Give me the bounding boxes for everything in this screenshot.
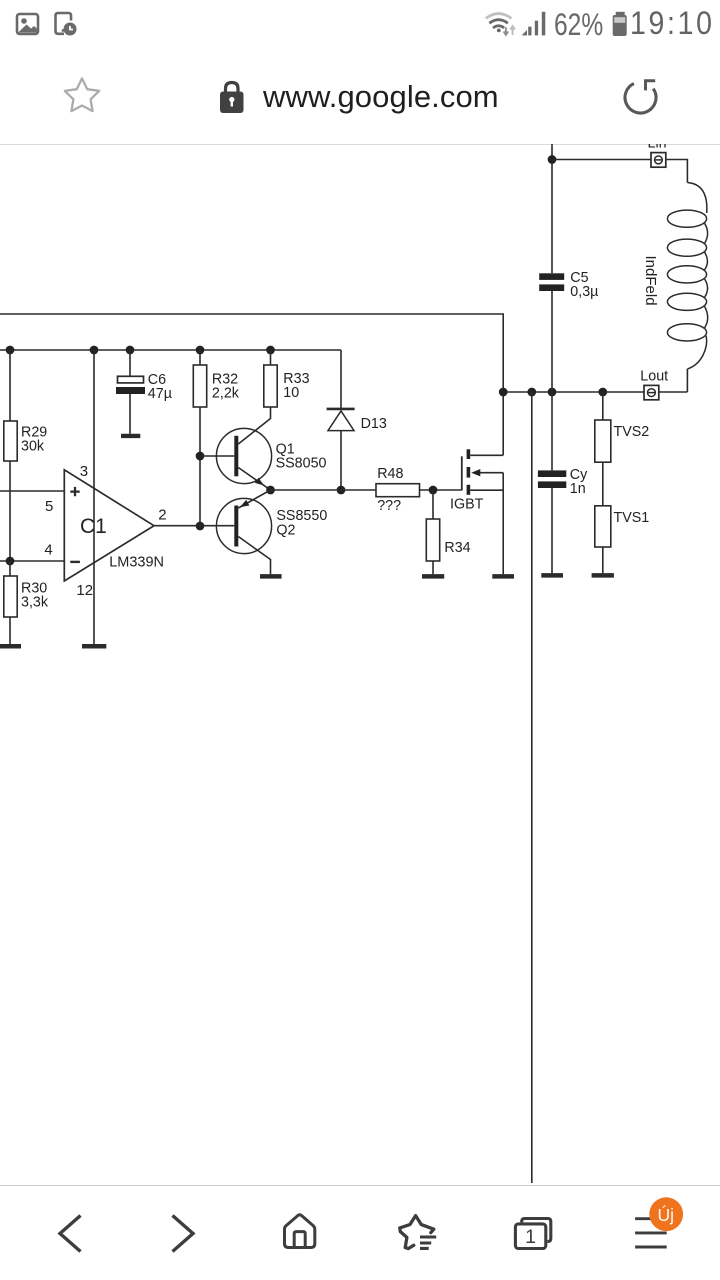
forward button [173,1216,194,1252]
wire R29 bottom to inverting node [9,461,11,561]
ground bar below R30 [0,644,21,649]
svg-text:4: 4 [44,542,52,559]
wire long horizontal feed to IGBT drain [0,314,503,455]
svg-text:2,2k: 2,2k [212,386,240,402]
node rail-pin3 [90,346,99,355]
svg-text:10: 10 [283,385,299,401]
wire R30 leads [9,561,11,644]
svg-text:3: 3 [80,463,88,480]
resistor R30 [4,576,49,617]
svg-text:???: ??? [377,498,401,514]
svg-text:1: 1 [525,1226,536,1248]
svg-text:30k: 30k [21,439,45,455]
ground bar below Cy [541,573,563,578]
svg-text:D13: D13 [361,416,387,432]
wire R32 to bases [199,407,201,526]
svg-text:Q2: Q2 [276,522,295,538]
node rail-C6 [126,346,135,355]
new-tab badge [649,1197,683,1231]
svg-text:TVS2: TVS2 [614,424,650,440]
wire VCC rail [0,349,341,351]
svg-text:IndFeld: IndFeld [642,256,659,306]
node gate-R34 [429,486,438,495]
node rail-R32 [196,346,205,355]
wire Lin to coil top [666,160,688,183]
svg-text:Új: Új [658,1204,675,1225]
wire R48 to gate [420,489,462,491]
clock text [630,5,715,42]
battery icon [613,12,627,36]
svg-text:12: 12 [76,582,93,599]
resistor R34 [426,490,470,574]
node rail-R29 [6,346,15,355]
resistor R48 [376,466,420,514]
node row-drain [499,388,508,397]
wire emitter node to R48 [271,489,377,491]
url text [263,79,499,115]
resistor R29 [4,421,47,461]
ground bar below IGBT [492,574,514,579]
lock icon [220,83,244,114]
svg-text:LM339N: LM339N [109,554,164,570]
node opamp output / Q2 base [196,522,205,531]
svg-text:Lout: Lout [640,369,668,385]
wire inverting input (pin 4) [0,560,64,562]
transistor Q2 [216,490,327,574]
terminal Lout [640,369,668,400]
wire noninverting input (pin 5) [0,490,64,492]
node C5 top [548,155,557,164]
back button [60,1216,81,1252]
battery percent text [554,6,603,43]
gallery icon [17,14,38,34]
svg-text:2: 2 [158,507,166,524]
tabs button [515,1219,550,1249]
varistor TVS1 [595,462,650,573]
node row-C5Cy [548,388,557,397]
ground bar pin 12 [82,644,106,649]
node row-sense [527,388,536,397]
diode D13 [327,350,387,490]
wire output row [503,391,644,393]
svg-text:R34: R34 [444,540,470,556]
svg-text:C1: C1 [80,515,107,538]
wire R33 to Q1 collector [238,407,270,444]
terminal Lin [648,136,667,168]
capacitor Cy [538,392,588,573]
svg-text:R48: R48 [377,466,403,482]
screen-time icon [56,13,77,36]
resistor R32 [193,350,239,407]
svg-text:SS8050: SS8050 [276,456,327,472]
capacitor C6 [116,350,172,436]
menu button [635,1219,667,1247]
ground bar below TVS1 [592,573,614,578]
svg-text:3,3k: 3,3k [21,595,49,611]
signal bars [522,12,546,36]
wire coil bottom to Lout [659,369,688,392]
ground bar below R34 [422,574,444,579]
op-amp C1 [44,463,166,599]
bookmark star [65,79,99,112]
bookmarks (star+lines) button [400,1216,436,1249]
transistor IGBT [450,449,503,574]
resistor R33 [264,350,310,407]
node emitters junction [266,486,275,495]
capacitor C5 [539,144,598,392]
node row-TVS [598,388,607,397]
svg-text:TVS1: TVS1 [614,510,650,526]
wire op-amp supply pin3 to pin12 ground [93,350,95,644]
refresh icon [625,81,656,113]
node rail-R33 [266,346,275,355]
svg-text:5: 5 [45,498,53,515]
svg-text:IGBT: IGBT [450,496,484,512]
node R29-R30-pin4 [6,557,15,566]
transistor Q1 [200,428,327,490]
wire R29 top [9,350,11,421]
node D13 anode [337,486,346,495]
svg-text:47µ: 47µ [148,386,172,402]
ground bar below Q2 [260,574,282,579]
svg-text:0,3µ: 0,3µ [570,284,598,300]
wifi icon [486,14,515,35]
wire to Lin terminal [552,159,651,161]
wire long sense line down [531,392,533,1183]
wire op-amp output to Q2 base [154,525,234,527]
inductor IndFeld coil [642,183,708,370]
svg-text:Lin: Lin [648,144,667,152]
varistor TVS2 [595,392,650,462]
node Q1 base [196,452,205,461]
home button [285,1215,315,1248]
svg-text:1n: 1n [570,481,586,497]
